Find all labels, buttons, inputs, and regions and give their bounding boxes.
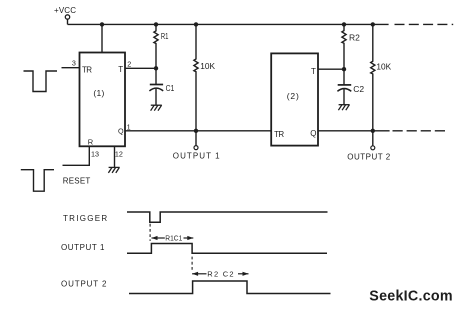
svg-text:2: 2 xyxy=(127,59,131,68)
svg-text:13: 13 xyxy=(91,149,99,158)
node rail-R1 xyxy=(154,22,158,26)
svg-text:R1: R1 xyxy=(161,31,169,41)
dimension R2C2 right arrow xyxy=(238,272,249,276)
output1 waveform xyxy=(127,244,327,254)
wire T pin to R1/C1 node xyxy=(125,67,156,69)
monostable U2 block xyxy=(271,53,318,145)
svg-text:R: R xyxy=(88,138,94,147)
svg-text:+VCC: +VCC xyxy=(54,6,76,15)
wire reset pin13 elbow xyxy=(63,146,90,165)
svg-text:TR: TR xyxy=(274,130,284,139)
dashed drop trigger to output1 xyxy=(149,224,151,241)
trigger waveform xyxy=(127,212,328,222)
resistor 10K (first) xyxy=(194,24,198,130)
dimension R1C1 right arrow xyxy=(184,236,194,240)
svg-text:3: 3 xyxy=(72,58,76,67)
svg-text:OUTPUT 1: OUTPUT 1 xyxy=(173,152,221,161)
terminal output2 xyxy=(371,146,375,150)
svg-text:R2: R2 xyxy=(349,33,360,43)
svg-text:12: 12 xyxy=(115,149,123,158)
wire Q output to block2 TR xyxy=(125,130,271,132)
svg-text:SeekIC.com: SeekIC.com xyxy=(369,288,453,304)
node rail-10K2 xyxy=(371,22,375,26)
output2 waveform xyxy=(129,281,331,294)
ground below C1 xyxy=(151,105,162,111)
svg-text:10K: 10K xyxy=(376,62,391,72)
wire trigger to pin 3 xyxy=(62,67,80,69)
wire rail to block1 top xyxy=(101,24,103,52)
node T-R1-C1 xyxy=(154,66,158,70)
svg-text:1: 1 xyxy=(127,122,131,131)
wire block2 Q output xyxy=(318,130,390,132)
node rail-10K1 xyxy=(194,22,198,26)
VCC terminal xyxy=(65,15,69,19)
trigger input pulse symbol xyxy=(24,71,58,92)
terminal output1 xyxy=(194,146,198,150)
wire block2 T to R2/C2 node xyxy=(318,68,344,70)
ground below C2 xyxy=(338,105,349,111)
svg-text:(2): (2) xyxy=(287,91,300,101)
svg-text:RESET: RESET xyxy=(63,176,91,185)
node T2-R2-C2 xyxy=(342,67,346,71)
svg-text:OUTPUT 1: OUTPUT 1 xyxy=(61,243,105,252)
dimension R2C2 left arrow xyxy=(192,272,206,276)
wire output1 stub xyxy=(195,131,197,146)
node rail-R2 xyxy=(342,22,346,26)
ground below pin 12 xyxy=(108,167,119,173)
wire top rail solid xyxy=(68,23,389,25)
svg-text:10K: 10K xyxy=(200,61,215,71)
dimension R1C1 left arrow xyxy=(152,236,165,240)
svg-text:OUTPUT 2: OUTPUT 2 xyxy=(347,153,390,162)
wire VCC drop xyxy=(67,19,69,24)
wire output2 dashed xyxy=(393,130,449,132)
node rail-block1 xyxy=(100,22,104,26)
dashed drop output1 to output2 xyxy=(191,257,193,271)
svg-text:C1: C1 xyxy=(166,83,175,93)
svg-text:Q: Q xyxy=(118,127,124,136)
resistor R1 xyxy=(154,24,158,68)
wire top rail dashed xyxy=(395,23,454,25)
capacitor C2 xyxy=(337,69,351,104)
svg-text:TRIGGER: TRIGGER xyxy=(63,214,108,223)
svg-text:C2: C2 xyxy=(353,84,364,94)
monostable U1 block xyxy=(80,53,126,147)
svg-text:TR: TR xyxy=(82,66,92,75)
svg-text:(1): (1) xyxy=(93,88,104,98)
resistor R2 xyxy=(342,24,346,69)
svg-text:Q: Q xyxy=(310,129,316,138)
svg-text:OUTPUT 2: OUTPUT 2 xyxy=(61,279,107,288)
resistor 10K (second) xyxy=(371,24,375,130)
svg-text:R2 C2: R2 C2 xyxy=(207,269,235,278)
capacitor C1 xyxy=(149,68,163,105)
reset input pulse symbol xyxy=(21,170,54,192)
wire pin12 to ground xyxy=(114,146,116,167)
svg-text:R1C1: R1C1 xyxy=(165,234,182,243)
node output2 xyxy=(371,129,375,133)
node output1 xyxy=(194,129,198,133)
wire output2 stub xyxy=(372,131,374,146)
svg-text:T: T xyxy=(118,65,123,74)
svg-text:T: T xyxy=(311,67,316,76)
